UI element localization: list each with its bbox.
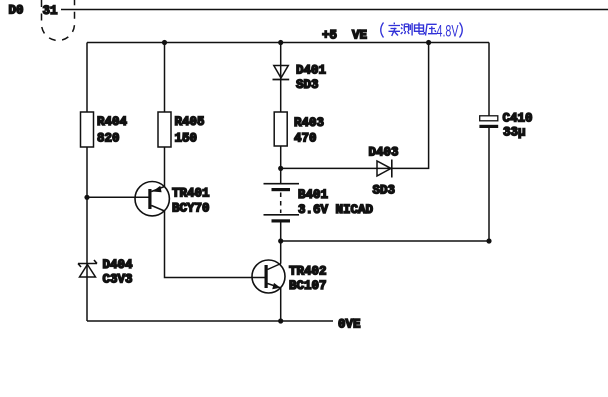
svg-text:TR401: TR401 — [172, 187, 210, 201]
svg-text:C410: C410 — [503, 112, 533, 126]
capacitor C410 — [479, 112, 532, 140]
wire R403 to battery — [280, 146, 282, 183]
resistor R405 — [158, 112, 171, 147]
junction node D403 tap — [278, 166, 283, 171]
junction node rail/R405 — [162, 40, 167, 45]
svg-text:470: 470 — [294, 132, 317, 146]
resistor R403 — [274, 112, 287, 146]
wire 0VE bottom rail — [87, 320, 333, 322]
wire R405 to TR401 emitter — [164, 147, 166, 187]
battery B401 — [264, 184, 374, 223]
transistor TR402 — [252, 260, 327, 293]
wire rail to R404 — [86, 43, 88, 113]
wire D404 to 0VE rail — [86, 277, 88, 321]
wire battery minus to C410 bottom — [281, 240, 489, 242]
svg-text:0VE: 0VE — [338, 318, 361, 332]
annotation measured voltage 4.8V (blue) — [381, 22, 463, 41]
svg-text:+5 VE: +5 VE — [322, 29, 367, 43]
wire C410 bottom to node — [488, 128, 490, 241]
svg-text:SD3: SD3 — [296, 78, 319, 92]
wire D401 to R403 — [280, 80, 282, 113]
svg-text:3.6V NICAD: 3.6V NICAD — [298, 203, 374, 217]
svg-text:150: 150 — [175, 132, 198, 146]
junction node C410 bottom — [486, 238, 491, 243]
wire rail to D401 — [280, 43, 282, 80]
svg-text:C3V3: C3V3 — [103, 273, 133, 287]
svg-text:R404: R404 — [97, 115, 128, 129]
wire rail to C410 top — [488, 43, 490, 116]
diode D401 — [273, 64, 327, 93]
svg-text:D404: D404 — [103, 258, 134, 272]
connector pin 31 dashed outline — [42, 0, 75, 41]
svg-text:R403: R403 — [294, 116, 324, 130]
svg-text:D401: D401 — [296, 64, 326, 78]
svg-text:820: 820 — [97, 132, 120, 146]
wire TR401 collector to TR402 base — [165, 211, 265, 278]
junction node rail/D403 — [426, 40, 431, 45]
svg-text:SD3: SD3 — [373, 184, 396, 198]
wire TR402 emitter to 0VE — [280, 288, 282, 321]
svg-text:D403: D403 — [369, 146, 399, 160]
wire rail to R405 — [164, 43, 166, 113]
svg-text:33μ: 33μ — [503, 126, 526, 140]
junction node TR402 emitter / 0VE — [278, 318, 283, 323]
wire battery to TR402 collector — [280, 223, 282, 264]
junction node battery minus / C410 — [278, 238, 283, 243]
diode D403 — [369, 146, 399, 198]
svg-text:R405: R405 — [175, 115, 205, 129]
svg-text:31: 31 — [43, 4, 58, 18]
wire +5VE rail — [87, 42, 489, 44]
wire D403 to +5 rail — [392, 43, 429, 169]
zener diode D404 — [78, 258, 133, 287]
transistor TR401 — [135, 182, 210, 216]
svg-text:TR402: TR402 — [289, 265, 327, 279]
svg-text:BC107: BC107 — [289, 279, 327, 293]
wire net D0 pin31 top rail — [61, 9, 608, 11]
svg-text:B401: B401 — [298, 188, 328, 202]
junction node base TR401 — [84, 195, 89, 200]
svg-text:BCY70: BCY70 — [172, 202, 210, 216]
wire TR401 base — [87, 196, 149, 198]
resistor R404 — [81, 112, 94, 147]
wire R404 to D404 — [86, 147, 88, 277]
svg-text:4.8V: 4.8V — [437, 22, 459, 41]
wire battery tap to D403 — [281, 167, 392, 169]
svg-text:D0: D0 — [9, 4, 24, 18]
junction node rail/D401 — [278, 40, 283, 45]
